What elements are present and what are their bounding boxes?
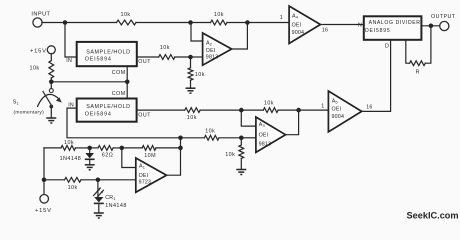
wire J13 down to A1 inverting input [122, 148, 136, 168]
input terminal INPUT [31, 11, 50, 27]
svg-text:SAMPLE/HOLD: SAMPLE/HOLD [86, 104, 130, 110]
svg-text:IN: IN [68, 102, 74, 108]
wire R11 to node J12 [76, 147, 90, 149]
wire J2 down to A2 inverting input [191, 23, 203, 42]
svg-text:A2: A2 [206, 40, 213, 46]
resistor R1 10k [117, 12, 137, 25]
svg-text:1: 1 [321, 104, 324, 110]
op-amp A1 OEI 9723 [136, 158, 167, 192]
svg-text:OEI: OEI [206, 48, 216, 54]
wire R8 to node J9 [200, 109, 241, 111]
node J6b junction [49, 80, 54, 85]
svg-text:9004: 9004 [292, 30, 305, 36]
wire A4 output to divider N input [320, 24, 363, 26]
svg-text:OEI5894: OEI5894 [85, 111, 112, 117]
wire J13 to R13 [122, 147, 142, 149]
switch S1 momentary [13, 82, 62, 116]
svg-text:10k: 10k [160, 45, 170, 51]
wire J1 to R1 [65, 22, 117, 24]
wire A2 output up to J3 [232, 23, 248, 50]
node J1 junction [63, 20, 68, 25]
wire J8 to A3 noninverting input [241, 137, 256, 139]
wire S1 to ground [50, 107, 52, 119]
svg-text:ANALOG DIVIDER: ANALOG DIVIDER [369, 20, 421, 26]
svg-text:INPUT: INPUT [31, 11, 50, 17]
op-amp A3 OEI 9813 [256, 117, 286, 152]
wire COM U1 to COM U2 [126, 66, 128, 98]
svg-text:IN: IN [66, 58, 72, 64]
resistor R2 10k feedback of A2 [211, 12, 228, 25]
svg-text:R: R [416, 70, 420, 76]
svg-text:62Ω: 62Ω [102, 153, 113, 159]
svg-text:10M: 10M [144, 153, 156, 159]
wire R6 to node J8 [219, 137, 241, 139]
svg-text:OUT: OUT [138, 59, 151, 65]
svg-text:+15V: +15V [35, 208, 52, 214]
svg-text:COM: COM [112, 91, 126, 97]
node J16 junction [96, 178, 101, 183]
wire R14 to node J16 [81, 179, 98, 181]
resistor R12 62 ohm [98, 146, 113, 159]
resistor R5 10k from +15V [30, 54, 54, 82]
svg-text:9813: 9813 [206, 55, 219, 61]
svg-text:SeekIC.com: SeekIC.com [407, 211, 459, 221]
svg-text:(momentary): (momentary) [14, 110, 45, 116]
svg-text:1N4148: 1N4148 [60, 156, 82, 162]
wire J6 to switch node [51, 81, 127, 83]
svg-text:10k: 10k [68, 185, 78, 191]
svg-text:16: 16 [366, 105, 372, 111]
wire J10 to A5 input [299, 109, 329, 111]
svg-text:OUT: OUT [138, 112, 151, 118]
node J9 junction [239, 108, 244, 113]
node J7 junction [178, 136, 183, 141]
node J3 junction [245, 20, 250, 25]
wire A5 output up to divider D pin [362, 40, 391, 112]
svg-text:OEI5895: OEI5895 [365, 28, 391, 34]
resistor R9 10k feedback of A3 [263, 100, 278, 112]
svg-text:S1: S1 [13, 100, 20, 106]
wire J9 to R9 [241, 109, 263, 111]
diode CR1 1N4148 with arrows [94, 180, 127, 213]
svg-text:OEI: OEI [332, 106, 342, 112]
analog divider U3 OEI5895 [364, 16, 422, 40]
output terminal OUTPUT [431, 14, 456, 31]
resistor R6 10k [204, 128, 219, 140]
power terminal +15V (top) [30, 46, 55, 55]
resistor R4 10k to ground [188, 57, 205, 88]
wire R3 to node J5 [175, 56, 191, 58]
svg-text:10k: 10k [205, 128, 215, 134]
wire J5 to A2 noninverting input [191, 56, 203, 58]
svg-text:A1: A1 [139, 163, 146, 169]
svg-text:CR1: CR1 [105, 195, 116, 201]
resistor R13 10M feedback of A1 [142, 146, 156, 160]
svg-text:OEI5894: OEI5894 [85, 57, 112, 63]
wire J7 to R6 [181, 137, 205, 139]
svg-text:N: N [358, 22, 362, 28]
svg-text:10k: 10k [195, 72, 205, 78]
wire J9 down to A3 inverting input [241, 110, 256, 126]
wire rail left to R11 [44, 147, 61, 149]
node J2 junction [188, 20, 193, 25]
wire U2 IN loop from A1 output rail [67, 108, 181, 138]
node J8 junction [239, 136, 244, 141]
wire input to node J1 [42, 22, 65, 24]
svg-text:OEI: OEI [259, 133, 269, 139]
wire R1 to node J2 [136, 22, 191, 24]
svg-text:10k: 10k [30, 66, 40, 72]
svg-text:10k: 10k [225, 152, 235, 158]
wire R2 to node J3 [227, 22, 247, 24]
svg-text:1N4148: 1N4148 [105, 203, 127, 209]
resistor R14 10k [65, 177, 82, 190]
node J10 junction [296, 108, 301, 113]
wire R13 to node J14 [156, 147, 181, 149]
node J5 junction [188, 55, 193, 60]
wire J15 to R14 [44, 179, 65, 181]
wire U1 OUT to R3 [137, 56, 159, 58]
svg-text:A3: A3 [259, 122, 266, 128]
node J12 junction [87, 146, 92, 151]
svg-text:OEI: OEI [292, 22, 302, 28]
svg-text:16: 16 [322, 27, 328, 33]
sample/hold U2 OEI5894 [77, 99, 137, 122]
wire node A vertical (+15V feed) [43, 148, 45, 180]
node J11 junction [429, 24, 434, 29]
svg-text:9723: 9723 [139, 180, 152, 186]
power terminal +15V (bottom) [35, 180, 52, 214]
resistor R3 10k [159, 45, 175, 59]
svg-text:1: 1 [280, 15, 283, 21]
wire R12 to node J13 [113, 147, 122, 149]
op-amp A5 OEI 9004 [328, 91, 361, 132]
svg-text:10k: 10k [64, 140, 74, 146]
svg-text:9813: 9813 [259, 142, 272, 148]
wire J1 down to sample/hold U1 IN [65, 23, 77, 58]
svg-text:A4: A4 [292, 14, 299, 20]
node J14 junction [178, 146, 183, 151]
wire J12 to R12 [90, 147, 98, 149]
svg-text:D: D [385, 44, 389, 50]
svg-text:SAMPLE/HOLD: SAMPLE/HOLD [86, 49, 130, 55]
ground G5 [236, 170, 246, 175]
resistor R7 10k to ground [225, 138, 244, 170]
wire A1 output up to J7/J14 [167, 138, 181, 175]
node J15 junction [42, 178, 47, 183]
wire U2 OUT to R8 [137, 109, 185, 111]
resistor R10 R feedback [406, 26, 431, 76]
ground G4 [186, 88, 196, 93]
ground G2 [85, 165, 95, 170]
svg-text:OEI: OEI [139, 173, 149, 179]
node J13 junction [120, 146, 125, 151]
wire R9 to node J10 [278, 109, 299, 111]
ground G1 [46, 118, 56, 123]
svg-text:10k: 10k [214, 12, 224, 18]
resistor R8 10k [185, 108, 201, 121]
resistor R11 10k [61, 140, 76, 150]
wire A3 output up to J10 [286, 110, 299, 135]
svg-text:COM: COM [112, 70, 126, 76]
wire J3 to A4 input [247, 22, 289, 24]
svg-text:9004: 9004 [332, 114, 345, 120]
wire divider output to OUTPUT [421, 25, 439, 27]
svg-text:OUTPUT: OUTPUT [431, 14, 456, 20]
op-amp A4 OEI 9004 [289, 6, 320, 44]
svg-text:A5: A5 [332, 98, 339, 104]
svg-text:10k: 10k [264, 100, 274, 106]
wire J2 to R2 [191, 22, 211, 24]
svg-text:+15V: +15V [30, 48, 47, 54]
diode D1 1N4148 [60, 148, 95, 165]
ground G3 [94, 213, 104, 218]
sample/hold U1 OEI5894 [77, 42, 137, 66]
wire J16 to A1 noninverting input [98, 179, 136, 181]
op-amp A2 OEI 9813 [203, 33, 232, 65]
node J6 junction [125, 80, 130, 85]
svg-text:10k: 10k [121, 12, 131, 18]
svg-text:10k: 10k [187, 115, 197, 121]
